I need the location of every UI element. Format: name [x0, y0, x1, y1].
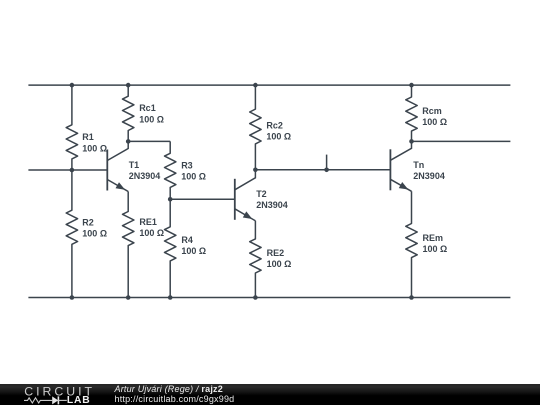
svg-text:Rc1: Rc1 [139, 103, 156, 113]
svg-text:100 Ω: 100 Ω [82, 143, 107, 153]
svg-text:Rcm: Rcm [422, 106, 442, 116]
svg-text:2N3904: 2N3904 [413, 171, 445, 181]
transistor Q Tn (Tn 2N3904) [390, 141, 444, 191]
wire T1 collector to R3 [128, 140, 170, 142]
svg-text:100 Ω: 100 Ω [266, 132, 291, 142]
svg-text:T2: T2 [256, 189, 267, 199]
svg-text:2N3904: 2N3904 [129, 171, 161, 181]
credit text [115, 384, 235, 405]
wire T2 collector to Tn base [255, 169, 390, 171]
logo resistor [24, 398, 52, 403]
wire bottom rail [28, 297, 510, 299]
svg-text:100 Ω: 100 Ω [82, 229, 107, 239]
svg-text:R3: R3 [181, 160, 193, 170]
node collector-T2 [253, 168, 258, 173]
resistor Rc2 [250, 85, 291, 170]
node collector-Tn [409, 139, 414, 144]
footer bar [0, 384, 540, 405]
logo diode [52, 397, 58, 405]
node bot-R4 [168, 295, 173, 300]
svg-text:100 Ω: 100 Ω [423, 244, 448, 254]
node bot-R2 [70, 295, 75, 300]
transistor Q T1 (T1 2N3904) [107, 141, 160, 191]
node top-Rcm [409, 83, 414, 88]
svg-text:T1: T1 [129, 160, 140, 170]
svg-text:100 Ω: 100 Ω [181, 246, 206, 256]
resistor R1 [66, 85, 107, 170]
svg-text:100 Ω: 100 Ω [139, 114, 164, 124]
wire top supply rail [28, 84, 510, 86]
resistor Rc1 [122, 85, 163, 141]
svg-text:R4: R4 [181, 235, 193, 245]
node base-T1 [70, 168, 75, 173]
svg-text:R1: R1 [82, 132, 94, 142]
node collector-T1 [126, 139, 131, 144]
wire T1 base input [28, 169, 107, 171]
svg-text:RE2: RE2 [267, 248, 285, 258]
node stub-junction [324, 168, 329, 173]
CircuitLab logo [0, 384, 100, 405]
resistor Rcm [406, 85, 447, 141]
wire R3 bottom to T2 base [170, 198, 235, 200]
wire stub above node [326, 155, 328, 170]
svg-text:100 Ω: 100 Ω [181, 172, 206, 182]
transistor Q T2 (T2 2N3904) [235, 170, 288, 221]
svg-text:Rc2: Rc2 [266, 120, 283, 130]
svg-text:LAB: LAB [67, 395, 91, 405]
svg-text:100 Ω: 100 Ω [422, 117, 447, 127]
node bot-REm [409, 295, 414, 300]
node top-Rc1 [126, 83, 131, 88]
resistor REm [406, 191, 447, 297]
svg-text:100 Ω: 100 Ω [267, 259, 292, 269]
wire output rail right [412, 140, 511, 142]
resistor R3 [165, 141, 206, 199]
svg-text:Tn: Tn [413, 160, 424, 170]
svg-text:R2: R2 [82, 217, 94, 227]
svg-text:100 Ω: 100 Ω [139, 228, 164, 238]
svg-text:REm: REm [423, 233, 444, 243]
resistor R4 [165, 199, 207, 297]
node bot-RE1 [126, 295, 131, 300]
resistor RE2 [250, 221, 292, 298]
resistor R2 [66, 170, 107, 298]
svg-text:2N3904: 2N3904 [256, 200, 288, 210]
node top-Rc2 [253, 83, 258, 88]
node bot-RE2 [253, 295, 258, 300]
node top-R1 [70, 83, 75, 88]
node R3-R4-T2base [168, 197, 173, 202]
svg-text:RE1: RE1 [139, 217, 157, 227]
resistor RE1 [122, 192, 164, 298]
